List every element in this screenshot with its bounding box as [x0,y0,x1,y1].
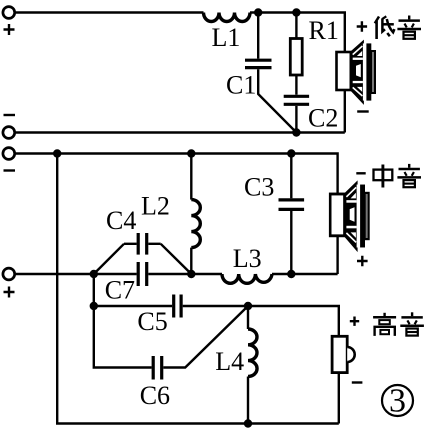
svg-text:3: 3 [389,383,406,420]
svg-text:C4: C4 [106,206,136,235]
svg-text:C3: C3 [244,173,274,202]
svg-text:C5: C5 [137,307,167,336]
svg-text:R1: R1 [309,16,339,45]
svg-text:C7: C7 [105,276,135,305]
svg-text:L1: L1 [212,23,241,52]
svg-text:C1: C1 [226,71,256,100]
svg-text:C6: C6 [140,381,170,410]
svg-text:L2: L2 [141,192,170,221]
svg-text:L3: L3 [233,244,262,273]
svg-text:C2: C2 [308,104,338,133]
svg-text:L4: L4 [215,347,244,376]
